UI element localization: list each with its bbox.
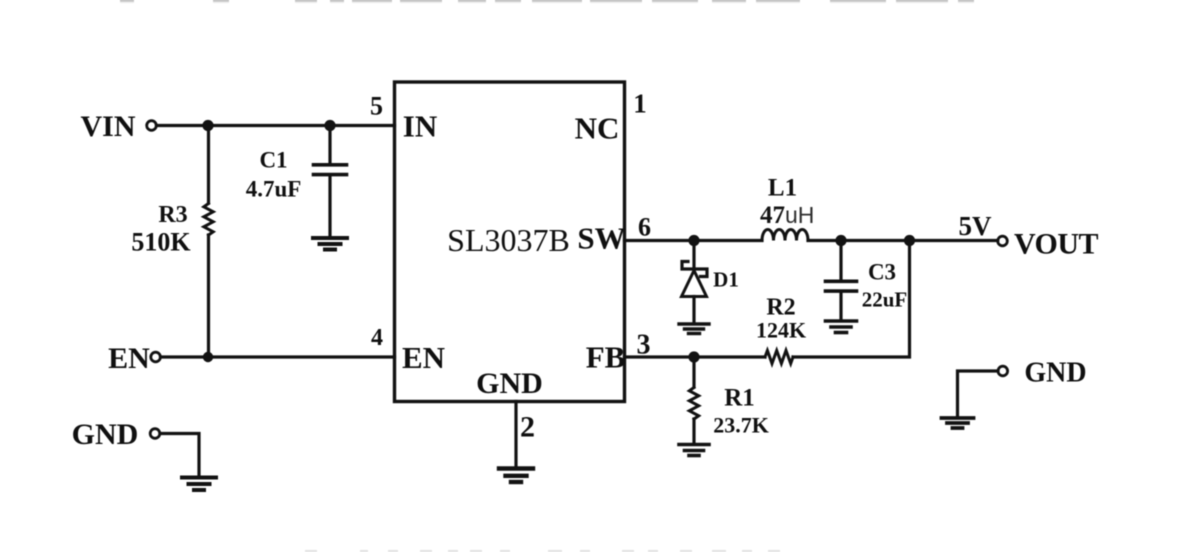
svg-text:GND: GND [72, 418, 139, 451]
svg-text:4.7uF: 4.7uF [246, 177, 302, 202]
svg-text:GND: GND [1024, 358, 1086, 389]
svg-text:R1: R1 [724, 385, 755, 412]
svg-text:22uF: 22uF [862, 288, 908, 312]
IC GND pin wire [514, 402, 517, 466]
svg-text:6: 6 [638, 213, 651, 242]
svg-text:FB: FB [586, 340, 626, 375]
svg-text:510K: 510K [131, 228, 191, 257]
svg-text:2: 2 [520, 411, 535, 444]
svg-text:SW: SW [577, 221, 625, 256]
svg-text:C3: C3 [868, 260, 896, 285]
wire GND right elbow [958, 371, 999, 415]
svg-text:NC: NC [575, 111, 620, 146]
wire FB line [625, 355, 766, 358]
svg-text:GND: GND [476, 367, 543, 400]
svg-text:VIN: VIN [80, 110, 135, 143]
cropped text remnants bottom edge [305, 550, 780, 552]
diode D1 (schottky) [682, 241, 708, 323]
wire GND left elbow [160, 434, 199, 476]
node junction VIN/C1 [324, 120, 335, 131]
svg-text:124K: 124K [756, 318, 806, 343]
svg-text:L1: L1 [768, 175, 797, 202]
resistor R3 [204, 126, 213, 358]
node junction L1/C3 [835, 235, 846, 246]
svg-text:EN: EN [108, 342, 150, 375]
svg-text:D1: D1 [713, 268, 739, 292]
svg-text:SL3037B: SL3037B [447, 222, 570, 258]
svg-text:5V: 5V [959, 211, 993, 241]
ground (R1) [679, 445, 709, 456]
svg-text:23.7K: 23.7K [713, 413, 769, 438]
node junction VOUT/R2 branch [904, 235, 915, 246]
svg-text:EN: EN [402, 340, 445, 375]
svg-text:1: 1 [633, 89, 647, 119]
node junction SW/D1 [688, 235, 699, 246]
node junction EN/R3 [203, 352, 213, 362]
ground (D1) [679, 324, 709, 334]
terminal VIN circle [147, 121, 157, 131]
svg-text:C1: C1 [259, 148, 287, 173]
wire SW to L1 [625, 239, 763, 242]
ground (IC pin 2) [499, 469, 533, 483]
wire L1 to VOUT [808, 239, 998, 242]
svg-text:4: 4 [371, 325, 383, 351]
capacitor C3 [826, 241, 857, 319]
ground (left terminal) [182, 478, 216, 491]
ground (right terminal) [942, 418, 974, 428]
svg-text:VOUT: VOUT [1014, 228, 1099, 261]
node junction VIN/R3 [202, 120, 213, 131]
terminal GND left circle [150, 429, 160, 439]
wire R2 to VOUT branch [793, 241, 910, 358]
capacitor C1 [314, 126, 347, 237]
wire EN to EN pin [161, 355, 395, 358]
svg-text:47uH: 47uH [760, 202, 814, 229]
svg-text:5: 5 [370, 92, 383, 121]
resistor R1 [689, 357, 698, 442]
ground (C1) [313, 238, 347, 250]
terminal GND right circle [998, 366, 1008, 376]
IC U1 SL3037B body [395, 82, 625, 402]
inductor L1 [762, 230, 808, 241]
wire VIN to IN pin [157, 124, 395, 127]
terminal EN circle [151, 352, 161, 362]
svg-text:IN: IN [403, 109, 437, 144]
terminal VOUT circle [998, 236, 1008, 246]
resistor R2 (horizontal) [765, 351, 793, 364]
cropped text remnants top edge [120, 0, 974, 3]
node junction FB/R1 [688, 351, 699, 362]
ground (C3) [826, 321, 857, 333]
svg-text:R3: R3 [158, 202, 187, 228]
